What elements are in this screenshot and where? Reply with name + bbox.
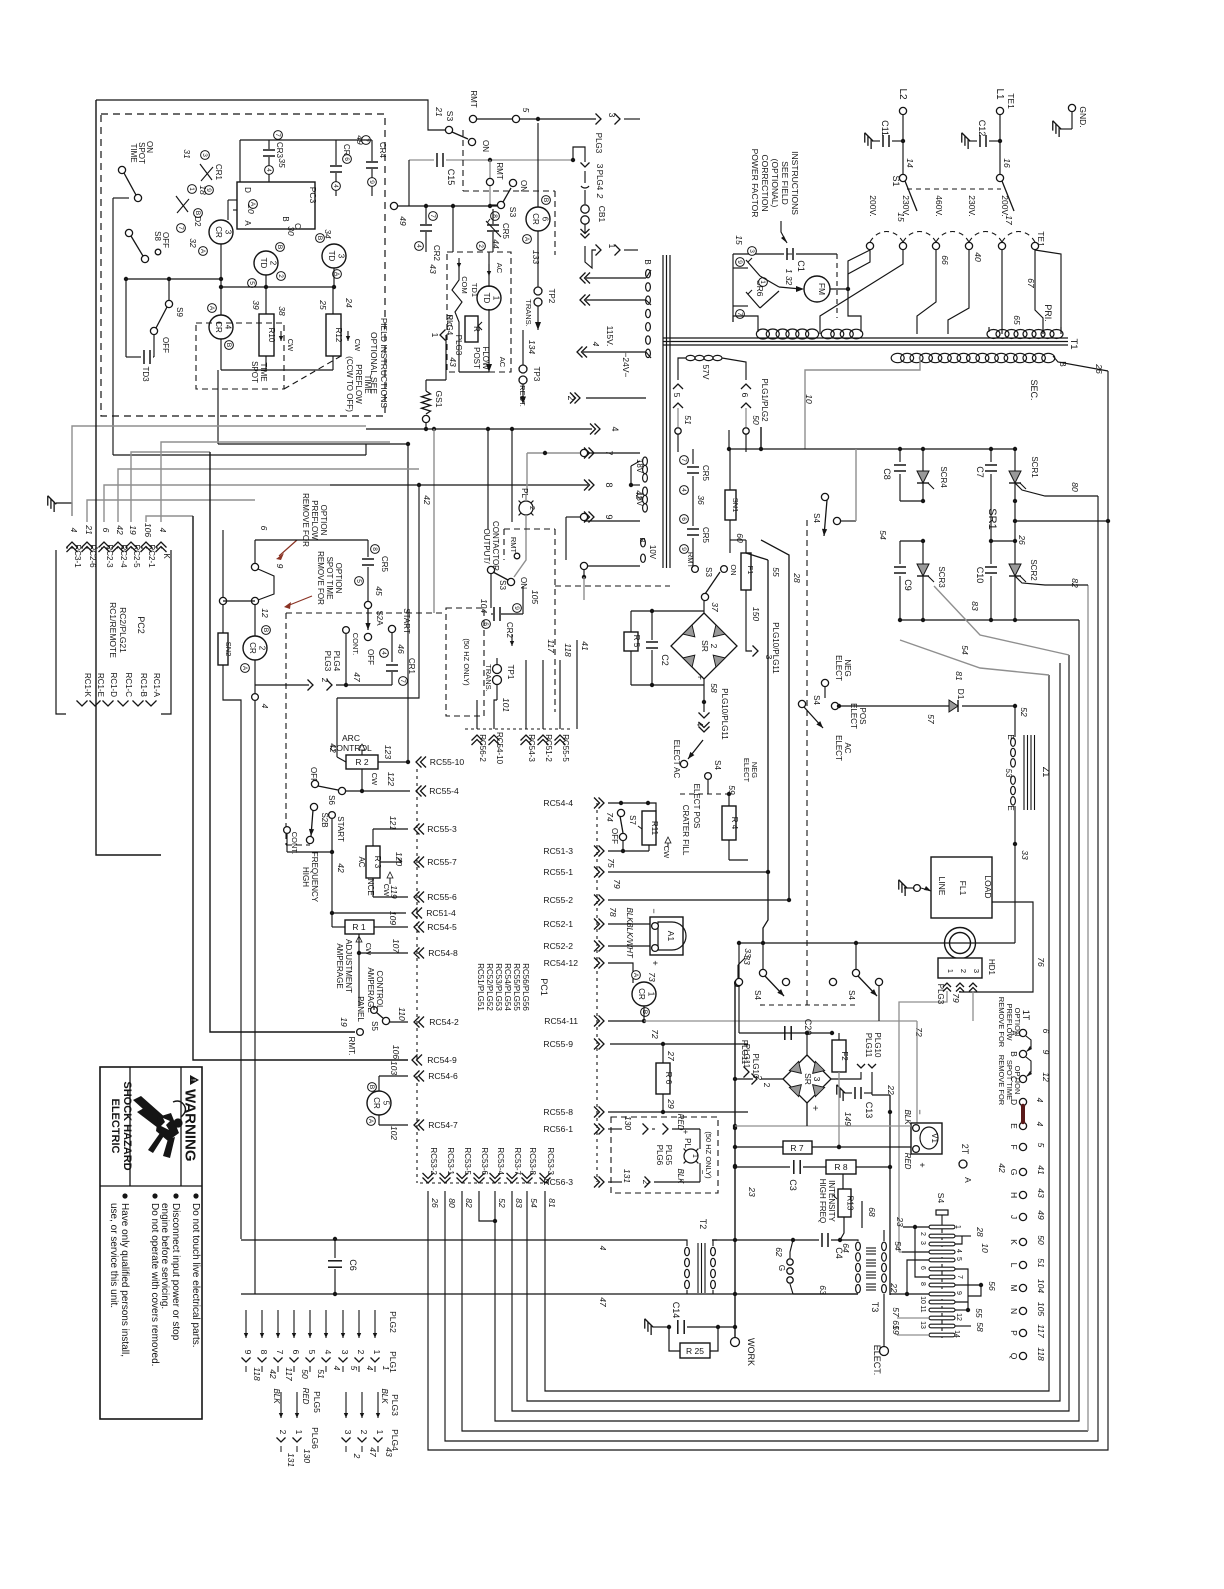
svg-text:R 4: R 4 — [730, 817, 739, 830]
svg-text:GS1: GS1 — [434, 390, 444, 407]
svg-text:123: 123 — [383, 745, 393, 759]
svg-text:RC54-11: RC54-11 — [544, 1016, 578, 1026]
svg-text:RC1-K: RC1-K — [83, 673, 92, 698]
svg-text:PC1: PC1 — [539, 978, 549, 996]
S4 net 56 pins 6 8 10 — [955, 1269, 968, 1302]
svg-text:C7: C7 — [975, 466, 985, 478]
svg-text:54: 54 — [878, 530, 888, 540]
svg-text:LINE: LINE — [937, 877, 947, 896]
svg-text:RC2-3: RC2-3 — [105, 544, 114, 568]
svg-text:RC1-C: RC1-C — [124, 673, 133, 698]
svg-text:BLK: BLK — [272, 1388, 281, 1404]
capacitor C10 — [990, 541, 992, 564]
svg-text:ELECT: ELECT — [834, 735, 843, 761]
svg-text:14: 14 — [905, 158, 915, 168]
capacitor CR5 pair right — [692, 449, 694, 464]
svg-text:CR: CR — [248, 642, 257, 654]
dashed box S9 — [196, 323, 284, 389]
svg-text:5: 5 — [672, 393, 682, 398]
svg-text:B: B — [542, 198, 549, 202]
svg-text:RC54-10: RC54-10 — [495, 732, 504, 765]
svg-text:19: 19 — [128, 525, 138, 535]
svg-text:28: 28 — [975, 1226, 985, 1237]
switch S9 — [126, 278, 221, 280]
svg-text:RC55-6: RC55-6 — [427, 892, 457, 902]
svg-text:TE1: TE1 — [1006, 93, 1016, 109]
svg-text:RED: RED — [676, 1114, 685, 1131]
tap link dashed lines — [907, 188, 1001, 190]
svg-text:BLK/WHT: BLK/WHT — [625, 922, 634, 959]
svg-text:NEG: NEG — [750, 762, 759, 778]
svg-text:SCR3: SCR3 — [937, 566, 946, 588]
svg-text:CR4: CR4 — [378, 142, 387, 159]
svg-text:CB1: CB1 — [597, 206, 607, 223]
cont switch — [284, 827, 291, 834]
svg-text:C2: C2 — [660, 654, 670, 666]
svg-text:21: 21 — [434, 106, 444, 117]
svg-text:SR: SR — [803, 1073, 813, 1085]
dashed optional boundary mid — [286, 612, 446, 614]
svg-text:PRI.: PRI. — [1043, 304, 1053, 322]
connector PLG1/PLG2 pin 6 — [722, 358, 746, 380]
svg-text:1: 1 — [647, 992, 656, 997]
svg-text:52: 52 — [1019, 707, 1029, 717]
svg-text:80: 80 — [447, 1198, 457, 1208]
svg-text:10: 10 — [804, 394, 814, 404]
svg-text:230V.: 230V. — [967, 195, 977, 216]
svg-text:131: 131 — [622, 1169, 632, 1183]
jumper remove spot — [219, 597, 226, 604]
wire RC55-1 to S4 — [763, 872, 768, 943]
svg-text:CORRECTION: CORRECTION — [760, 154, 770, 211]
svg-text:2: 2 — [269, 261, 278, 266]
jumper bar D-E — [1021, 1106, 1025, 1122]
svg-text:CR: CR — [214, 226, 223, 238]
svg-text:TIME: TIME — [363, 374, 372, 393]
svg-text:S3: S3 — [704, 567, 713, 577]
wire from FM junction down to taps area — [848, 250, 870, 289]
svg-text:3: 3 — [340, 1350, 350, 1355]
svg-text:7: 7 — [177, 226, 184, 230]
svg-text:4: 4 — [265, 168, 272, 172]
svg-text:4: 4 — [955, 1249, 962, 1253]
svg-text:25: 25 — [318, 299, 328, 310]
svg-text:CR5: CR5 — [501, 223, 510, 240]
svg-text:PL: PL — [520, 488, 529, 498]
svg-text:34: 34 — [323, 229, 333, 239]
svg-text:53: 53 — [1004, 769, 1013, 778]
svg-text:22: 22 — [889, 1282, 899, 1293]
svg-text:ELECT POS: ELECT POS — [692, 784, 701, 829]
svg-text:START: START — [336, 816, 345, 842]
svg-text:SR: SR — [700, 640, 710, 652]
dashed line RC54 column — [596, 803, 598, 1182]
svg-text:RC55-1: RC55-1 — [543, 867, 573, 877]
aux winding 24V — [646, 269, 651, 357]
capacitor C11 — [901, 139, 905, 143]
svg-text:5: 5 — [349, 1366, 359, 1371]
svg-text:RC1-D: RC1-D — [109, 673, 118, 698]
svg-text:B: B — [194, 211, 201, 215]
svg-text:1: 1 — [372, 1350, 382, 1355]
svg-text:4: 4 — [680, 488, 687, 492]
svg-text:15: 15 — [734, 235, 744, 245]
svg-text:ON: ON — [481, 140, 490, 152]
svg-text:2: 2 — [528, 506, 535, 510]
svg-text:S9: S9 — [175, 307, 184, 317]
svg-text:TD3: TD3 — [141, 366, 150, 382]
svg-text:62: 62 — [774, 1247, 784, 1257]
svg-text:RC53-8: RC53-8 — [528, 1147, 537, 1175]
svg-text:50: 50 — [751, 415, 761, 425]
wire R10 R12 bottom — [265, 356, 267, 370]
svg-text:RC51-4: RC51-4 — [426, 908, 456, 918]
relay TD1 — [477, 286, 501, 310]
svg-text:PC3: PC3 — [308, 187, 318, 204]
svg-text:SCR4: SCR4 — [939, 466, 948, 488]
switch S5 — [371, 1007, 378, 1014]
svg-text:A: A — [963, 1177, 973, 1183]
capacitor C7 — [990, 449, 992, 462]
svg-text:36: 36 — [696, 495, 706, 505]
terminal L2 — [899, 107, 906, 114]
svg-text:RC56/PLG56: RC56/PLG56 — [521, 963, 530, 1011]
capacitor CR4 a — [335, 140, 337, 165]
svg-text:RC56-1: RC56-1 — [543, 1124, 573, 1134]
svg-text:9: 9 — [513, 606, 520, 610]
svg-text:S7: S7 — [628, 815, 637, 825]
work terminal — [731, 1338, 740, 1347]
current transducer HD1 — [945, 928, 976, 959]
svg-text:FIELD INSTRUCTIONS: FIELD INSTRUCTIONS — [379, 318, 389, 409]
connector PLG3 column — [573, 147, 585, 162]
svg-text:117: 117 — [284, 1367, 294, 1381]
svg-text:RED: RED — [903, 1153, 912, 1170]
svg-text:134: 134 — [527, 340, 537, 354]
svg-text:2: 2 — [641, 1180, 651, 1185]
svg-text:PLG11: PLG11 — [864, 1033, 873, 1058]
wires 117 118 41 verticals — [542, 660, 544, 729]
svg-text:9: 9 — [275, 564, 285, 569]
svg-text:D: D — [243, 187, 252, 193]
svg-text:START: START — [402, 608, 411, 634]
svg-text:CONTROL: CONTROL — [375, 970, 384, 1010]
svg-text:1: 1 — [375, 1430, 385, 1435]
svg-text:SCR2: SCR2 — [1029, 559, 1038, 581]
svg-text:4: 4 — [332, 184, 339, 188]
svg-text:15: 15 — [896, 212, 906, 222]
svg-text:57: 57 — [926, 714, 936, 724]
svg-text:74: 74 — [605, 812, 615, 822]
50 HZ ONLY box left — [446, 608, 484, 716]
svg-text:ON: ON — [729, 564, 738, 575]
resistor R12 — [332, 287, 334, 314]
svg-text:57V: 57V — [701, 364, 711, 379]
svg-text:RC53-4: RC53-4 — [496, 1147, 505, 1175]
svg-text:S5: S5 — [370, 1021, 379, 1031]
svg-text:PLG10/PLG11: PLG10/PLG11 — [771, 622, 780, 674]
svg-text:TIME: TIME — [129, 143, 138, 162]
S4 net 59 pin 14 — [897, 1334, 929, 1336]
svg-text:43: 43 — [384, 1447, 394, 1457]
wire V1 top — [735, 1125, 911, 1127]
svg-text:R 25: R 25 — [686, 1346, 704, 1356]
svg-text:RC55-9: RC55-9 — [543, 1039, 573, 1049]
contact TD2 — [176, 196, 188, 212]
svg-text:A: A — [523, 237, 530, 242]
svg-text:RC53-1: RC53-1 — [446, 1147, 455, 1175]
svg-text:47: 47 — [352, 672, 362, 682]
svg-text:A: A — [243, 220, 252, 226]
chevron 1 right — [596, 245, 602, 256]
svg-text:FM: FM — [817, 283, 827, 295]
snubber SN2 — [218, 633, 228, 665]
svg-text:6: 6 — [101, 528, 111, 533]
svg-text:104: 104 — [1036, 1279, 1046, 1293]
svg-text:117: 117 — [546, 639, 556, 653]
cont wire — [343, 627, 350, 634]
svg-text:24: 24 — [344, 297, 354, 308]
svg-text:49: 49 — [1036, 1210, 1046, 1220]
svg-text:R 5: R 5 — [632, 635, 641, 648]
svg-text:S4: S4 — [812, 513, 821, 523]
svg-text:PLG3: PLG3 — [454, 335, 463, 356]
svg-text:27: 27 — [666, 1050, 676, 1061]
relay CR3 — [209, 220, 233, 244]
svg-text:4: 4 — [1035, 1122, 1045, 1127]
svg-text:CR5: CR5 — [701, 527, 710, 544]
svg-text:PLG3: PLG3 — [390, 1394, 400, 1416]
svg-text:79: 79 — [951, 993, 961, 1003]
svg-text:C9: C9 — [903, 579, 913, 591]
svg-text:42: 42 — [115, 525, 125, 535]
svg-text:B: B — [225, 343, 232, 347]
svg-text:WORK: WORK — [746, 1338, 756, 1366]
svg-text:78: 78 — [608, 907, 618, 917]
resistor R5 C2 — [631, 610, 704, 612]
svg-text:CR: CR — [531, 213, 540, 225]
svg-text:4: 4 — [158, 528, 168, 533]
connector PLG1/PLG2 pin 5 — [678, 358, 686, 380]
svg-text:RC51/PLG51: RC51/PLG51 — [476, 963, 485, 1011]
svg-text:CR2: CR2 — [505, 622, 514, 639]
aux winding 10V — [641, 539, 646, 563]
svg-text:7: 7 — [275, 1350, 285, 1355]
svg-text:CR: CR — [372, 1097, 381, 1109]
wire 26 from SEC B to right border — [1053, 356, 1108, 371]
svg-text:55: 55 — [974, 1308, 984, 1318]
svg-text:6: 6 — [291, 1350, 301, 1355]
warning box frame — [100, 1067, 202, 1419]
dashed optional region top — [462, 130, 464, 191]
svg-text:SPOT TIME: SPOT TIME — [1005, 1060, 1014, 1100]
svg-text:2: 2 — [709, 644, 719, 649]
svg-text:AC: AC — [498, 357, 507, 368]
svg-text:CR1: CR1 — [214, 164, 223, 181]
RC51-4 chevron — [412, 908, 422, 919]
svg-text:83: 83 — [970, 601, 980, 611]
resistor R7 — [735, 1146, 783, 1148]
svg-text:TD: TD — [482, 293, 491, 304]
svg-text:2: 2 — [352, 1453, 362, 1459]
warning title — [182, 1075, 200, 1162]
S4 net 23 pins 1 7 — [913, 1225, 917, 1229]
svg-text:4: 4 — [415, 244, 422, 248]
switch S1 — [899, 174, 906, 181]
svg-text:S4: S4 — [847, 990, 856, 1000]
svg-text:117: 117 — [1036, 1324, 1046, 1338]
svg-text:INSTRUCTIONS: INSTRUCTIONS — [790, 151, 800, 215]
svg-text:SPOT: SPOT — [137, 142, 146, 164]
svg-text:T1: T1 — [1068, 338, 1079, 349]
svg-text:32: 32 — [188, 238, 198, 248]
wire SR1 to border — [1015, 520, 1108, 522]
capacitor C6 — [333, 1237, 337, 1241]
svg-text:110: 110 — [397, 1007, 407, 1021]
svg-text:S6: S6 — [327, 795, 336, 805]
svg-text:+: + — [809, 1105, 820, 1111]
svg-text:5: 5 — [1036, 1143, 1046, 1148]
svg-text:ADJUSTMENT: ADJUSTMENT — [344, 939, 353, 993]
svg-text:−: − — [915, 1109, 925, 1114]
motor FM — [804, 276, 830, 302]
svg-text:PLG4: PLG4 — [332, 651, 341, 672]
svg-text:TIME: TIME — [259, 362, 268, 381]
jumper remove preflow — [251, 563, 258, 570]
connector PLG2 PLG1 list — [245, 1310, 247, 1338]
svg-text:PLG10: PLG10 — [873, 1033, 882, 1058]
svg-text:INTENSITY: INTENSITY — [827, 1180, 836, 1222]
S4 contact row — [735, 978, 742, 985]
svg-text:F1: F1 — [746, 566, 755, 575]
svg-text:R12: R12 — [334, 328, 343, 343]
shock person icon — [133, 1096, 167, 1126]
svg-text:7: 7 — [680, 458, 687, 462]
svg-text:3: 3 — [343, 1430, 353, 1435]
svg-text:T3: T3 — [870, 1302, 880, 1313]
svg-text:9: 9 — [736, 260, 743, 264]
svg-text:1: 1 — [691, 1154, 698, 1158]
svg-text:RMT: RMT — [509, 537, 518, 554]
svg-text:23: 23 — [747, 1186, 757, 1197]
svg-text:+: + — [694, 674, 705, 680]
lamp PL2 — [519, 501, 533, 515]
svg-text:41: 41 — [580, 641, 590, 651]
svg-text:ELECTRIC: ELECTRIC — [109, 1099, 121, 1154]
svg-text:NEG: NEG — [843, 659, 852, 676]
jumper arrows preflow — [1026, 1036, 1031, 1051]
relay CR6 — [537, 123, 539, 207]
svg-text:14: 14 — [953, 1330, 960, 1338]
svg-text:ELECT: ELECT — [834, 655, 843, 681]
svg-text:PLG10/PLG11: PLG10/PLG11 — [720, 688, 729, 740]
gray wires from PC2 — [72, 426, 366, 516]
svg-text:−24V−: −24V− — [621, 352, 631, 377]
svg-text:RC56-3: RC56-3 — [543, 1177, 573, 1187]
svg-text:5: 5 — [355, 579, 362, 583]
svg-text:+: + — [681, 1130, 690, 1135]
50 HZ ONLY box PL1 — [611, 1117, 718, 1193]
svg-text:54: 54 — [893, 1241, 903, 1251]
svg-text:2T: 2T — [960, 1144, 970, 1155]
svg-text:9: 9 — [680, 547, 687, 551]
svg-text:12: 12 — [1041, 1072, 1051, 1082]
svg-text:9: 9 — [1041, 1050, 1051, 1055]
svg-text:40: 40 — [973, 252, 983, 262]
capacitor C14 R25 — [640, 1319, 656, 1335]
svg-text:39: 39 — [251, 300, 261, 310]
svg-text:CW: CW — [286, 339, 295, 352]
svg-text:S3: S3 — [508, 207, 518, 218]
jumper wire down — [252, 694, 259, 701]
svg-text:(CCW TO OFF): (CCW TO OFF) — [345, 356, 354, 412]
left long verticals — [193, 516, 408, 1060]
test point TP3 — [519, 365, 527, 373]
transformer T3 — [856, 1242, 861, 1293]
switch S2A — [364, 601, 371, 608]
bus Y449 top — [728, 448, 1015, 450]
svg-text:TRANS.: TRANS. — [484, 664, 493, 692]
svg-text:S4: S4 — [812, 695, 821, 705]
svg-text:56: 56 — [987, 1281, 997, 1291]
bus 49 — [390, 202, 397, 209]
relay PC3 box — [237, 182, 315, 229]
svg-text:4: 4 — [380, 651, 387, 655]
dashed optional box — [101, 114, 385, 416]
connector PLG3 PLG4 list — [345, 1392, 347, 1418]
svg-text:79: 79 — [612, 879, 622, 889]
svg-text:OFF: OFF — [610, 828, 619, 844]
svg-text:Q: Q — [1009, 1353, 1019, 1360]
amperage R1 — [345, 920, 374, 934]
svg-text:RED: RED — [301, 1388, 310, 1405]
svg-text:F2: F2 — [840, 1051, 849, 1061]
svg-text:OFF: OFF — [161, 337, 170, 353]
svg-text:7: 7 — [429, 214, 436, 218]
capacitor CR3 — [268, 140, 270, 149]
svg-text:RC54-9: RC54-9 — [427, 1055, 457, 1065]
svg-text:RC52-2: RC52-2 — [543, 941, 573, 951]
svg-text:TP2: TP2 — [547, 289, 556, 304]
warning bullets — [193, 1193, 198, 1198]
svg-text:OPTION: OPTION — [334, 563, 343, 594]
svg-text:60: 60 — [735, 533, 745, 543]
RC56 RC54 RC51 chevrons row — [472, 735, 483, 745]
svg-text:TP1: TP1 — [506, 665, 515, 680]
svg-text:1: 1 — [294, 1430, 304, 1435]
svg-text:6: 6 — [1041, 1029, 1051, 1034]
svg-text:PLG4: PLG4 — [445, 315, 454, 336]
svg-text:RC1/REMOTE: RC1/REMOTE — [108, 602, 118, 658]
capacitor C13 — [832, 1085, 848, 1101]
svg-text:1 32: 1 32 — [784, 269, 794, 286]
svg-text:3: 3 — [201, 153, 208, 157]
ground GND — [1068, 104, 1075, 111]
dashed vertical center — [806, 520, 808, 1005]
svg-text:RC55-8: RC55-8 — [543, 1107, 573, 1117]
svg-text:81: 81 — [954, 671, 964, 681]
svg-text:PLG3: PLG3 — [323, 651, 332, 672]
outer left border — [96, 100, 161, 855]
svg-text:2: 2 — [356, 1350, 366, 1355]
capacitor TD3 — [125, 279, 127, 357]
svg-text:C15: C15 — [446, 169, 456, 186]
svg-text:ON: ON — [519, 180, 528, 192]
svg-text:E: E — [1009, 1123, 1019, 1129]
svg-text:GND.: GND. — [1078, 106, 1088, 127]
svg-text:R10: R10 — [267, 328, 276, 343]
svg-text:CRATER FILL: CRATER FILL — [681, 805, 690, 856]
